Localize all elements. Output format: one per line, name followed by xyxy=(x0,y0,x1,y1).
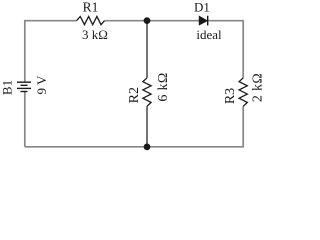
value 9 V xyxy=(34,75,49,95)
wire (right side, top corner to R3) xyxy=(242,20,244,78)
diode D1 xyxy=(199,16,208,26)
label B1 xyxy=(0,80,15,95)
svg-text:D1: D1 xyxy=(194,0,210,14)
resistor R1 xyxy=(77,17,105,25)
value 2 kΩ xyxy=(251,73,266,102)
svg-text:3 kΩ: 3 kΩ xyxy=(82,27,108,42)
wire (left side, top to battery) xyxy=(24,20,26,82)
wire (middle branch, top junction to R2) xyxy=(146,21,148,78)
label R1 xyxy=(83,0,99,14)
value 6 kΩ xyxy=(156,72,171,101)
label R2 xyxy=(127,87,142,103)
svg-text:R3: R3 xyxy=(223,88,238,104)
wire (top-left segment, node A to R1) xyxy=(25,20,77,22)
battery B1 xyxy=(17,82,31,91)
svg-text:2 kΩ: 2 kΩ xyxy=(251,73,266,102)
node B (bottom junction dot) xyxy=(144,144,151,151)
label R3 xyxy=(223,88,238,104)
svg-text:B1: B1 xyxy=(0,80,15,95)
svg-text:R2: R2 xyxy=(127,87,142,103)
svg-text:R1: R1 xyxy=(83,0,99,14)
wire (bottom rail) xyxy=(25,146,243,148)
value ideal xyxy=(196,27,222,42)
label D1 xyxy=(194,0,210,14)
wire (R2 to bottom junction) xyxy=(146,106,148,147)
value 3 kΩ xyxy=(82,27,108,42)
wire (R1 to top junction to D1) xyxy=(105,20,200,22)
node A (top junction dot) xyxy=(144,17,151,24)
wire (D1 to top-right corner) xyxy=(208,20,243,22)
wire (R3 to bottom-right corner) xyxy=(242,106,244,147)
svg-text:9 V: 9 V xyxy=(34,75,49,95)
resistor R2 xyxy=(143,78,151,107)
resistor R3 xyxy=(239,78,247,107)
wire (battery to bottom-left corner) xyxy=(24,92,26,147)
svg-text:ideal: ideal xyxy=(196,27,222,42)
svg-text:6 kΩ: 6 kΩ xyxy=(156,72,171,101)
